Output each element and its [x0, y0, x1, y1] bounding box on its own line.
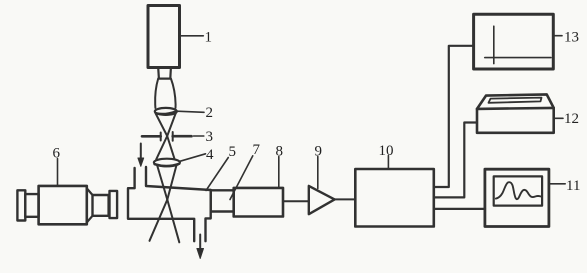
- oscilloscope 11 waveform: [496, 182, 541, 199]
- detector 6 body: [39, 186, 87, 224]
- printer 12 front top edge: [477, 108, 554, 109]
- svg-text:11: 11: [566, 178, 580, 194]
- gas inlet arrow: [140, 144, 142, 160]
- laser source box 1: [148, 6, 180, 68]
- detector 6 left section: [25, 194, 38, 217]
- svg-text:6: 6: [53, 146, 61, 162]
- leader line label 4: [180, 154, 206, 162]
- leader line label 11: [549, 183, 565, 185]
- svg-text:5: 5: [229, 144, 237, 160]
- svg-text:8: 8: [276, 143, 284, 159]
- beam from lens 4 converging to focus: [157, 166, 167, 200]
- svg-text:12: 12: [564, 111, 579, 127]
- wire 10 to 11: [434, 208, 485, 210]
- leader line label 6: [57, 159, 59, 186]
- svg-text:13: 13: [564, 30, 579, 46]
- leader line label 10: [387, 156, 389, 170]
- leader line label 5: [206, 158, 228, 191]
- pinhole 3 left tick: [160, 133, 162, 141]
- svg-text:9: 9: [315, 143, 323, 159]
- processor box 10: [355, 169, 434, 227]
- leader line label 2: [177, 111, 204, 112]
- detector 6 barrel: [93, 195, 109, 216]
- beam diverging legs below focus: [150, 200, 168, 241]
- recorder 13 horizontal axis: [485, 57, 551, 59]
- svg-text:2: 2: [206, 105, 214, 121]
- laser output neck: [158, 68, 171, 79]
- beam crossing at pinhole: lens2 to lens4: [155, 113, 174, 159]
- beam funnel from neck to lens 2: [155, 79, 158, 109]
- lens 2: [155, 108, 177, 115]
- leader line label 13: [553, 35, 562, 37]
- pinhole 3 left dash: [142, 135, 161, 138]
- leader line label 12: [555, 117, 564, 119]
- scattering cell 5 outline: [128, 168, 194, 241]
- wire 10 to 12: [434, 123, 477, 198]
- svg-text:3: 3: [206, 129, 214, 145]
- window box 7: [211, 190, 234, 211]
- svg-text:7: 7: [253, 142, 261, 158]
- wire 9 to 10: [335, 198, 356, 200]
- pinhole 3 right tick: [172, 132, 174, 141]
- detector 6 taper: [87, 188, 93, 195]
- detector 6 left end cap: [17, 190, 25, 220]
- svg-text:1: 1: [205, 30, 213, 46]
- outlet arrow: [199, 235, 201, 251]
- wire 10 to 13: [434, 46, 474, 187]
- leader line label 7: [230, 156, 253, 200]
- leader line label 9: [317, 157, 319, 189]
- leader line label 3: [194, 135, 204, 137]
- leader line label 1: [180, 35, 204, 37]
- photomultiplier box 8: [234, 188, 283, 217]
- wire 8 to 9: [283, 200, 309, 202]
- recorder 13 vertical axis: [493, 26, 495, 63]
- pinhole 3 right dash: [173, 135, 192, 138]
- oscilloscope box 11: [485, 169, 549, 226]
- printer 12 paper slot: [489, 98, 542, 103]
- amplifier 9: [309, 186, 335, 214]
- svg-text:10: 10: [379, 143, 394, 159]
- printer box 12 outline: [477, 94, 554, 132]
- leader line label 8: [278, 157, 280, 188]
- oscilloscope 11 screen: [494, 176, 542, 205]
- svg-text:4: 4: [206, 147, 214, 163]
- lens 4: [154, 159, 180, 167]
- detector 6 right end cap: [110, 191, 118, 218]
- recorder box 13: [474, 14, 554, 69]
